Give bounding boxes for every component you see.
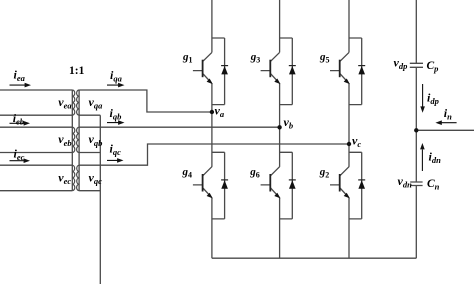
svg-text:1:1: 1:1 [69, 65, 85, 77]
